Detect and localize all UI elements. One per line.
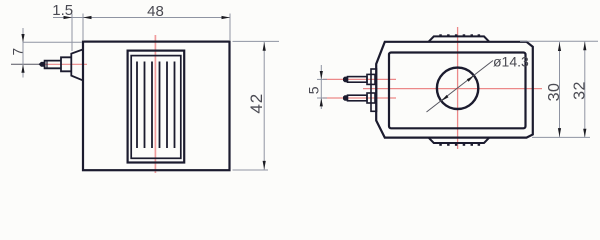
svg-text:ø14.3: ø14.3 [493, 54, 529, 70]
svg-text:32: 32 [571, 81, 588, 100]
svg-text:42: 42 [247, 93, 266, 114]
svg-text:7: 7 [11, 48, 26, 56]
svg-text:48: 48 [147, 3, 164, 20]
svg-text:5: 5 [306, 86, 322, 94]
svg-text:1.5: 1.5 [52, 2, 73, 19]
svg-text:30: 30 [546, 83, 563, 102]
